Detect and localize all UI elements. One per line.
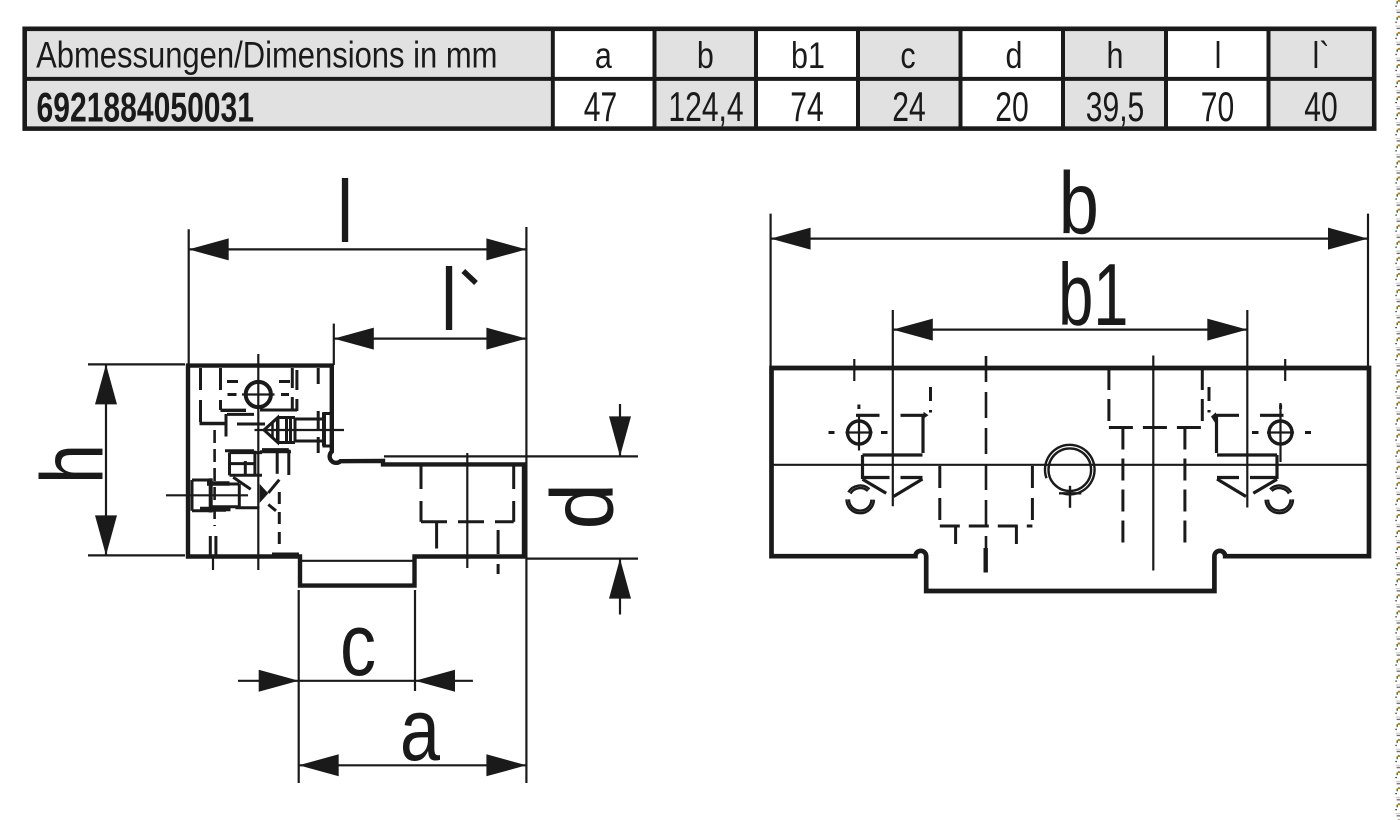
tenon inner line xyxy=(302,560,414,562)
screw recess ledges xyxy=(323,414,335,447)
center hole inner circle xyxy=(1049,448,1092,491)
svg-text:h: h xyxy=(24,444,122,484)
svg-text:b1: b1 xyxy=(1058,247,1128,345)
pocket bottom lines xyxy=(225,449,291,453)
shared extension line right (l, l-prime, a) xyxy=(525,227,527,783)
svg-text:70: 70 xyxy=(1201,83,1234,130)
slot center tick xyxy=(984,548,988,573)
svg-text:b: b xyxy=(1059,155,1099,253)
central pocket hidden outline xyxy=(1109,368,1202,551)
side screw vertical centerline xyxy=(208,430,226,526)
svg-text:a: a xyxy=(595,35,612,77)
svg-text:d: d xyxy=(1006,35,1023,77)
T-slot hidden outline xyxy=(940,466,1033,551)
dimension b label xyxy=(1059,155,1099,253)
left clamp screw group xyxy=(829,359,931,513)
table header dimension letters xyxy=(595,35,1330,77)
svg-text:39,5: 39,5 xyxy=(1086,83,1145,130)
svg-text:47: 47 xyxy=(584,83,617,130)
slot centerline xyxy=(985,356,988,553)
set screw axis xyxy=(255,429,345,431)
svg-text:h: h xyxy=(1107,35,1124,77)
svg-text:a: a xyxy=(400,681,440,779)
table outer border xyxy=(25,29,1375,129)
svg-text:l`: l` xyxy=(1313,35,1330,77)
dimension h label xyxy=(24,444,122,484)
insert right vertical xyxy=(245,451,255,475)
center hole cross mark xyxy=(1059,486,1081,508)
counterbore hidden outline xyxy=(421,466,514,522)
table dimension values xyxy=(584,83,1338,130)
svg-text:b: b xyxy=(697,35,714,77)
dimension a label xyxy=(400,681,440,779)
dimension c line with outside arrows xyxy=(238,670,473,692)
dimension d arrows xyxy=(609,404,631,615)
svg-text:b1: b1 xyxy=(791,35,825,77)
counterbore inner lines xyxy=(437,522,499,574)
left view part outline xyxy=(188,366,524,586)
dimension b1 extension lines xyxy=(893,310,1248,508)
hidden line D xyxy=(295,370,298,411)
vertical centerline of top screw xyxy=(257,354,259,570)
dimension h extension lines xyxy=(88,364,185,555)
watermark strip xyxy=(1386,0,1400,820)
centerline stub below bottom xyxy=(212,558,214,570)
right clamp screw group xyxy=(1209,359,1311,513)
svg-text:20: 20 xyxy=(995,83,1028,130)
svg-text:l: l xyxy=(441,251,457,349)
svg-text:c: c xyxy=(900,35,915,77)
set screw cone point xyxy=(264,418,278,442)
dimension b1 label xyxy=(1058,247,1128,345)
insert hidden line xyxy=(278,492,281,551)
set screw head xyxy=(278,418,295,443)
table column borders xyxy=(553,29,1269,129)
side screw body xyxy=(211,484,240,507)
dimension l label xyxy=(337,163,353,261)
side screw washer xyxy=(200,478,231,512)
dimension b line with arrows xyxy=(771,228,1368,250)
corner B xyxy=(221,409,247,412)
dimension l line with arrows xyxy=(189,238,527,260)
dimension b extension lines xyxy=(771,214,1368,367)
dimension h line with arrows xyxy=(95,364,117,555)
table article number 6921884050031 xyxy=(37,83,255,130)
insert pocket rectangle A xyxy=(229,453,262,476)
top screw hole circle xyxy=(246,382,271,407)
dimension l extension line left xyxy=(188,229,190,364)
pocket top lines xyxy=(227,410,297,424)
set screw shaft xyxy=(295,419,323,441)
counterbore centerline xyxy=(466,453,468,568)
insert pocket rectangle B xyxy=(262,450,289,475)
dimension c label xyxy=(340,596,376,694)
svg-text:Abmessungen/Dimensions in mm: Abmessungen/Dimensions in mm xyxy=(36,35,497,76)
dimension d label xyxy=(534,483,632,529)
right view part outline xyxy=(772,368,1370,591)
right view mid line xyxy=(772,464,1367,466)
hidden line E xyxy=(317,368,320,453)
hidden line B xyxy=(219,368,222,410)
hidden line A xyxy=(199,368,202,424)
dimension b1 line with arrows xyxy=(893,319,1248,341)
dimension l-prime extension line xyxy=(333,324,335,365)
dimension d extension lines xyxy=(384,456,638,558)
insert point triangle xyxy=(260,484,269,503)
insert chamfer diagonals xyxy=(233,477,279,493)
set screw end washer xyxy=(322,413,326,447)
table header label Abmessungen/Dimensions in mm xyxy=(36,35,497,76)
insert lower line xyxy=(235,505,276,511)
table row divider xyxy=(25,77,1375,81)
dimension l-prime line with arrows xyxy=(334,328,527,350)
top screw hole crosshair xyxy=(227,382,290,395)
hidden line C xyxy=(291,368,294,411)
svg-text:c: c xyxy=(340,596,376,694)
side screw axis xyxy=(166,494,248,496)
dimension a line with arrows xyxy=(299,754,527,776)
center hole thread arc xyxy=(1045,445,1095,495)
dimension c extension lines xyxy=(299,590,415,783)
bottom edge jog line xyxy=(272,552,299,554)
svg-text:d: d xyxy=(534,483,632,529)
dimension l-prime label xyxy=(441,251,476,349)
svg-text:74: 74 xyxy=(790,83,823,130)
central pocket centerline xyxy=(1152,356,1154,571)
svg-text:l: l xyxy=(337,163,353,261)
corner A xyxy=(200,414,227,437)
side screw head xyxy=(192,480,211,511)
svg-text:40: 40 xyxy=(1304,83,1337,130)
svg-text:24: 24 xyxy=(892,83,925,130)
svg-text:l: l xyxy=(1215,35,1222,77)
svg-text:6921884050031: 6921884050031 xyxy=(37,83,255,130)
svg-text:124,4: 124,4 xyxy=(668,83,743,130)
double vertical marks xyxy=(210,536,216,556)
table shaded cells xyxy=(27,31,1374,126)
